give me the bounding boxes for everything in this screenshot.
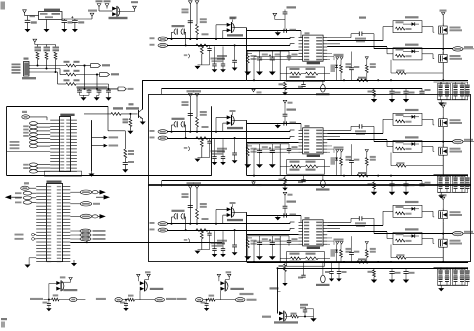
IC U10 gate driver [303,35,324,61]
resistor R27 [202,126,209,128]
ground [29,257,36,259]
ground [83,95,85,97]
wire driver inputs [247,50,299,52]
connector J1 [24,58,29,60]
pin stubs U2 right [62,186,70,188]
resistor R1T [373,88,375,90]
ground [91,171,93,173]
gate network R3D [393,233,422,245]
resistor R52 [124,131,126,149]
capacitor bank CB2 [434,174,469,176]
wire [118,11,135,13]
ground [256,256,263,260]
wire driver right [327,40,383,42]
wire source to rail [442,158,444,176]
power flag VCC pair [336,242,339,245]
resistor R35 [200,230,203,239]
resistor R3S shunt [357,261,368,264]
wire rail B [167,230,290,232]
net flags sense group [70,230,80,232]
net flag in [115,298,122,302]
resistor R2T [373,181,375,183]
ground flag [277,31,279,33]
node VIN bus right arrow [96,196,104,198]
capacitor C17 [351,52,353,68]
resistor R26 [200,111,207,113]
net flag LINE1_A [150,37,155,39]
net flag PinC [109,88,119,90]
gate network R1C [393,21,422,33]
ground [440,285,442,288]
ground [195,251,201,254]
wire phase [442,129,444,147]
jumper W1 [188,54,189,58]
capacitor C2I [222,139,224,156]
capacitor C + ground [120,302,125,304]
capacitor bank CB1 [434,81,469,83]
ground [440,193,442,196]
net flag A1 [22,111,27,113]
net flag PinB [100,73,110,77]
wire sensor out [232,211,247,213]
wire aux rail ch3 [278,268,469,270]
ground [244,164,251,168]
ground flag [277,216,279,218]
resistor R3G pulldown [390,245,392,258]
jumper W2 [188,147,189,151]
footprint outline [44,171,81,176]
regulator D34 LMV431 [322,262,324,275]
wire source to rail [442,250,444,262]
regulator D14 LMV431 [322,80,324,84]
resistor R3T [373,268,375,270]
capacitor C + ground [201,302,206,304]
ground [269,256,276,260]
diode D33 1N4148 [405,201,419,203]
capacitor C24 [259,144,261,151]
wire aux rail [162,88,422,90]
resistor R1S shunt [357,79,368,82]
wire rail A [167,223,290,225]
capacitor C1 [30,15,36,17]
capacitor C3U [405,268,407,271]
connector P2 header [29,122,37,125]
pin stubs U1 left [50,119,59,121]
resistor R2 [46,45,48,47]
capacitor C32 [283,213,285,217]
resistor R [209,295,215,297]
capacitor C15 [271,51,273,58]
net flag out [221,299,236,301]
label net in [96,298,106,300]
ground flag [277,124,279,126]
diode D32 TVS [336,244,338,249]
diode D30 dual [99,10,113,12]
jumper W3 [188,239,189,243]
ground [269,164,276,168]
label PB TxD [15,234,24,236]
ground [25,29,31,32]
capacitor bank CB3 [434,267,469,269]
net flag LINE3_B [150,229,155,231]
regulator D24 LMV431 [322,176,324,180]
pin stubs driver right [323,221,327,223]
resistor R7 [64,70,70,72]
power flag on aux rail [253,88,255,89]
resistors R2A R2B box [287,160,325,175]
capacitor C3F [234,230,236,245]
wire sensor out [232,27,247,29]
diode D50 dual [48,284,50,300]
capacitor C7 [108,89,110,90]
ground [256,72,263,76]
label P2 nets [23,125,29,127]
regulator U3 LM2931 [39,12,63,20]
capacitor C52 [123,162,128,164]
diode D dual clamp [220,291,222,300]
power flag [147,274,150,277]
net flag LINE3_A [150,222,155,224]
net flag PWM1 [70,191,80,193]
resistor R38 [246,239,249,248]
ground [73,260,75,263]
capacitor C22 [283,121,285,125]
resistor R2S shunt [357,174,368,177]
power flag +5V [90,13,94,16]
capacitor C12 [283,29,285,33]
resistor R90 [285,316,291,318]
capacitor C21 [209,138,211,141]
resistor R15 [200,45,203,54]
pin stubs driver left [299,129,303,131]
connector P3 header [29,163,37,166]
label C14 [359,17,366,19]
resistors R3A R3B box [287,252,325,267]
diode D dual clamp [139,291,141,300]
ground [141,117,144,119]
frame channel 2 sheet [149,95,471,186]
capacitor C3G [288,236,290,241]
power flag VB2 [195,94,199,97]
resistor R28 [246,147,249,156]
resistor R18 [246,55,249,64]
label Sense [270,287,279,289]
label GPIO1_A0 [30,298,43,300]
net flag PHASE3 [453,231,463,235]
net flag A2 [24,182,29,184]
capacitor C2 [63,19,65,20]
capacitor C19 [303,80,305,84]
net flag in [196,298,203,302]
capacitor C23 label [287,109,297,111]
capacitor C2G [288,144,290,149]
power flag VA3 [188,186,192,189]
wire [62,18,92,20]
transistor Q2B [439,147,448,155]
capacitor C36 bootstrap [327,221,351,223]
wire sensor out [232,119,247,121]
ground [127,131,133,134]
capacitor C39 [303,262,305,275]
pin stubs driver left [299,37,303,39]
label GPIO nets [10,141,20,143]
resistor R25 [200,138,203,147]
capacitor C33 label [287,201,297,203]
resistors R1A R1B box [287,67,325,82]
label caps [77,86,108,88]
capacitor C20 10uF [182,101,189,103]
wire caps rail [77,88,118,90]
power flag VCC pair [336,150,339,153]
gate network R2C [393,113,422,125]
IC U1 CPLD [60,117,71,172]
wire driver right [327,225,383,227]
resistor R2V [284,176,286,178]
net arrow TxD [92,137,104,139]
node VIN bus left arrow [5,195,11,200]
ground [96,95,98,97]
net flag PHASE1 [453,47,463,51]
ground [313,317,315,319]
resistor R1V [284,80,286,82]
wire [247,235,289,237]
capacitor C1I [222,47,224,64]
ground [46,20,48,30]
pin stubs driver right [323,37,327,39]
pin stubs driver right [323,129,327,131]
transistor Q2A [442,105,445,108]
capacitor C30 10uF [182,193,189,195]
net flag LINE2_B [150,137,155,139]
capacitor C1F [234,45,236,60]
capacitor C37 [351,236,353,252]
net flag LINE2_A [150,130,155,132]
ground [195,66,201,69]
bus U1 right [91,120,93,171]
power flag VB3 [195,186,199,189]
ground [269,72,276,76]
wire COM rail [247,175,468,177]
capacitor C29 [303,176,305,180]
wire driver right [327,133,383,135]
capacitor C1H [214,47,216,64]
power flag VP1 [273,13,277,16]
resistor R50 [111,113,121,116]
power flag [217,274,220,277]
resistor R37 [202,218,209,220]
power flag [137,274,140,277]
transistor Q50 [138,110,140,118]
wire phase [442,221,444,239]
wire COM rail [247,80,468,82]
label PB RxD [15,238,24,240]
diode D21 BAV99 [216,117,227,119]
capacitor C3H [214,231,216,248]
capacitor C1G [288,51,290,56]
resistor R19 [340,59,342,64]
resistor R3V [284,262,286,264]
net flag PWM3 [70,215,80,217]
capacitor C10 10uF [182,9,189,11]
IC U30 gate driver [303,220,324,246]
capacitor C2U [405,181,407,184]
capacitor C3V [331,262,333,271]
capacitor C3W [338,262,340,271]
wire [247,30,301,32]
label net in [177,298,187,300]
power flag VIN [23,10,27,13]
net flag PinA [91,64,101,68]
label PWRGATE [240,293,254,295]
resistor R29 [340,152,342,157]
wire [70,242,222,244]
capacitor C60 + ground [43,302,48,304]
resistor R1G pulldown [390,60,392,73]
pin stubs U2 left [36,186,46,188]
wire rail A [167,131,290,133]
diode D22 TVS [336,152,338,157]
jumper JP3 OPEN [172,210,185,212]
transistor Q3B [439,239,448,247]
power flag VA2 [188,94,192,97]
resistor R3 [55,45,57,47]
capacitor C4 [79,89,81,90]
gate network R1D [393,48,422,60]
capacitor C3 [74,19,76,20]
ground [440,100,442,103]
wire [247,123,301,125]
capacitor C1U [405,88,407,91]
capacitor C5 [88,89,90,90]
power flag VCC pair [336,57,339,60]
ground [195,159,201,162]
gate network R2D [393,141,422,153]
label sheet corner mark [1,2,6,10]
capacitor C6 [98,89,100,90]
capacitor C90 [300,304,308,306]
wire [277,268,279,313]
diode D11 BAV99 [216,24,227,26]
ground [256,164,263,168]
transistor Q1A [442,13,445,16]
wire aux rail [162,180,422,182]
transistor Q1B [439,55,448,63]
label C34 [60,276,66,278]
capacitor C3T [391,268,393,271]
transistor Q90 dual diode [279,311,283,315]
power flag VP3 [283,192,287,195]
frame CPLD sheet [7,106,108,108]
label J1 pins [12,64,21,66]
capacitor C27 [351,144,353,160]
capacitor C11 [209,45,211,48]
power flag on aux rail [253,181,255,182]
ground [122,169,128,172]
resistor R2G pulldown [390,153,392,166]
resistor R310 [365,242,368,245]
resistor R210 [365,150,368,153]
wire [35,44,56,46]
capacitor C26 bootstrap [327,129,351,131]
net flag PWM2 [70,203,80,205]
pin stubs driver left [299,221,303,223]
power flag [133,6,137,9]
capacitor C3I [222,231,224,248]
power flag [228,274,231,277]
capacitor C2T [391,181,393,184]
wire rail A [167,38,290,40]
net flag out [140,299,155,301]
power flag VP2 [283,100,287,103]
resistor R17 [202,33,209,35]
IC U2 MCU [47,184,63,262]
capacitor C14 [259,51,261,58]
net flag LINE1_B [150,44,155,46]
capacitor C16 bootstrap [327,37,351,39]
resistor R36 [200,203,207,205]
power flag [105,4,109,7]
resistor R39 [340,244,342,249]
wire [247,215,301,217]
wire [84,113,111,115]
ground [108,95,110,97]
power flag [69,277,72,280]
resistor R6 [64,61,70,63]
resistor R51 [129,114,131,119]
transistor Q3A [442,197,445,200]
resistor R1 [37,45,39,47]
net arrow RxD [92,145,104,147]
resistor R8 [64,79,70,81]
frame channel 3 sheet [149,185,471,262]
net flag PHASE2 [453,139,463,143]
IC U20 gate driver [303,128,324,154]
jumper JP1 OPEN [172,25,185,27]
wire source to rail [442,65,444,80]
ground [244,256,251,260]
capacitor C2F [234,138,236,153]
capacitor C25 [271,144,273,151]
net flag out1 [70,297,77,301]
power flag [97,4,101,7]
diode D13 1N4148 [405,16,419,18]
wire [29,65,66,67]
power flag VA1 [188,1,192,4]
power flag VB1 [195,1,199,4]
label VCC [230,17,237,19]
wire rail B [167,45,290,47]
wire [247,143,289,145]
resistor R [128,295,134,297]
capacitor C2H [214,139,216,156]
wire driver inputs [247,234,299,236]
wire [247,50,289,52]
wire [29,71,58,73]
label R50 MONITOR [113,107,123,109]
resistor R60 [53,294,59,296]
diode D12 TVS [336,59,338,64]
wire driver inputs [247,142,299,144]
ground [244,72,251,76]
wire [29,68,60,70]
gate network R3C [393,205,422,217]
label page number [1,318,7,320]
capacitor C31 [209,230,211,233]
capacitor C34 [259,236,261,243]
wire [7,150,50,152]
connector P4 header [15,192,22,194]
capacitor C13 label [287,6,297,8]
